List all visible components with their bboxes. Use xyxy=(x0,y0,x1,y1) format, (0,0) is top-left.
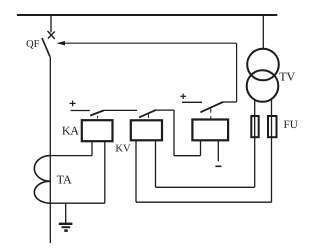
svg-text:QF: QF xyxy=(26,39,40,50)
svg-text:KV: KV xyxy=(115,144,131,155)
svg-text:TA: TA xyxy=(57,173,72,187)
svg-text:TV: TV xyxy=(279,70,295,84)
svg-text:FU: FU xyxy=(284,119,298,131)
svg-text:KA: KA xyxy=(62,123,80,137)
